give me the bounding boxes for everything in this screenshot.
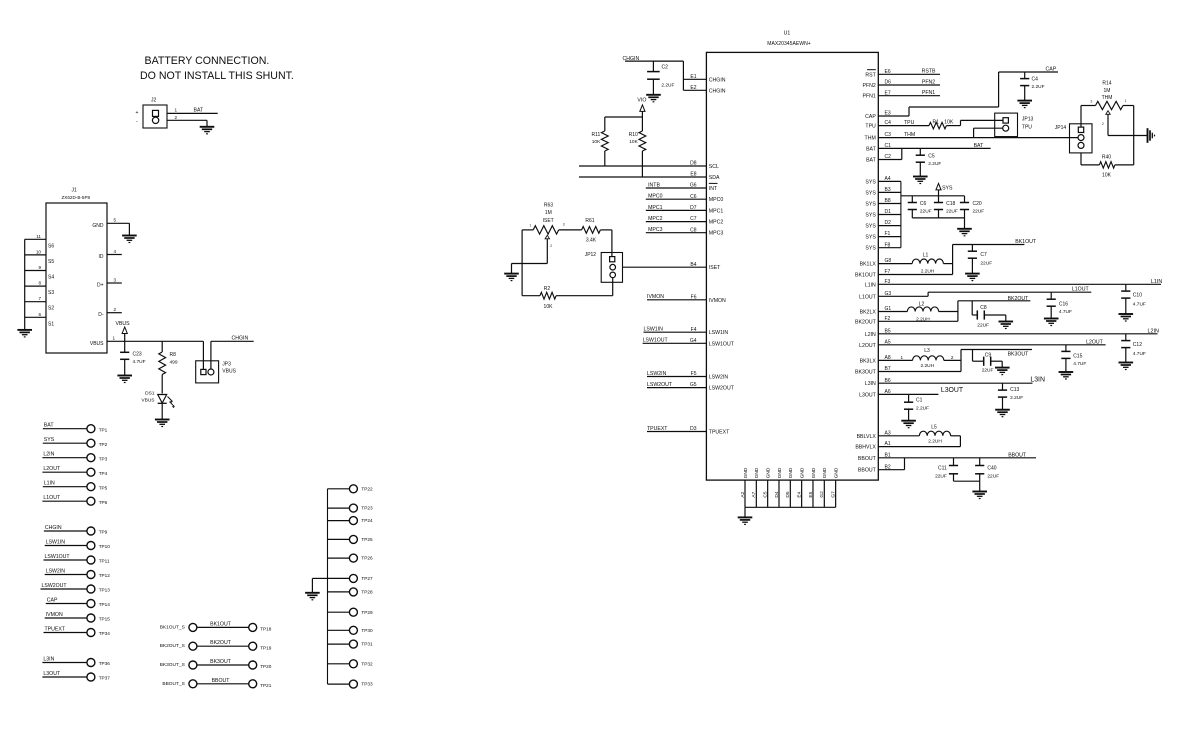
svg-text:C20: C20 xyxy=(973,201,982,207)
svg-text:4.7UF: 4.7UF xyxy=(1073,361,1086,367)
svg-text:22UF: 22UF xyxy=(946,208,958,214)
resistor R40 xyxy=(1081,153,1134,179)
capacitor C6 xyxy=(908,196,932,218)
svg-text:L2IN: L2IN xyxy=(1148,328,1159,334)
svg-text:6: 6 xyxy=(38,312,41,317)
ground C5 xyxy=(913,177,928,184)
svg-text:2: 2 xyxy=(951,355,954,360)
svg-text:A8: A8 xyxy=(885,355,891,361)
svg-text:TPU: TPU xyxy=(1022,124,1032,130)
test point TP31 xyxy=(328,640,373,648)
svg-text:E5: E5 xyxy=(808,491,814,497)
capacitor C20 xyxy=(960,196,984,218)
svg-text:GND: GND xyxy=(777,467,783,478)
svg-text:BK3OUT: BK3OUT xyxy=(210,659,232,665)
svg-text:TP6: TP6 xyxy=(99,500,108,505)
svg-text:TP11: TP11 xyxy=(99,559,110,564)
svg-text:3: 3 xyxy=(563,223,565,227)
svg-text:JP12: JP12 xyxy=(585,252,597,258)
svg-text:E8: E8 xyxy=(690,172,696,178)
svg-text:E7: E7 xyxy=(885,90,891,96)
svg-text:4.7UF: 4.7UF xyxy=(1133,302,1146,308)
svg-text:22UF: 22UF xyxy=(987,473,999,479)
svg-text:D6: D6 xyxy=(885,80,892,86)
svg-text:L1IN: L1IN xyxy=(1151,279,1162,285)
svg-text:SYS: SYS xyxy=(865,235,876,241)
svg-text:LSW1OUT: LSW1OUT xyxy=(709,341,735,347)
svg-text:LSW2IN: LSW2IN xyxy=(46,568,66,574)
test point TP5 net L1IN xyxy=(43,481,108,491)
ground J1 GND xyxy=(122,236,137,243)
svg-text:BK3OUT_S: BK3OUT_S xyxy=(160,662,185,668)
svg-text:G5: G5 xyxy=(690,382,697,388)
svg-text:TPUEXT: TPUEXT xyxy=(45,626,66,632)
inductor L1 xyxy=(912,252,952,274)
svg-text:MPC2: MPC2 xyxy=(709,220,724,226)
wire net CHGIN to U1 xyxy=(623,56,684,90)
svg-text:D+: D+ xyxy=(97,283,104,289)
test point TP36 net L3IN xyxy=(42,656,110,666)
svg-text:RST: RST xyxy=(865,72,876,78)
svg-text:A6: A6 xyxy=(885,389,891,395)
svg-text:TP37: TP37 xyxy=(99,676,111,681)
svg-text:L5: L5 xyxy=(931,424,937,430)
svg-text:9: 9 xyxy=(38,265,41,270)
power flag VBUS xyxy=(116,321,131,342)
svg-text:1M: 1M xyxy=(1104,88,1111,94)
resistor R1 xyxy=(929,120,1003,129)
svg-text:MAX20345AEWN+: MAX20345AEWN+ xyxy=(767,41,810,47)
U1 pin E8 SDA xyxy=(579,172,720,181)
wire JP12 to R2 xyxy=(612,278,614,296)
svg-text:TP34: TP34 xyxy=(99,631,111,636)
resistor R11 xyxy=(591,117,608,166)
test point TP15 net IVMON xyxy=(45,612,111,622)
svg-text:D4: D4 xyxy=(774,491,780,497)
svg-text:TP5: TP5 xyxy=(99,485,108,490)
capacitor C7 xyxy=(968,245,992,274)
U1 pin D3 TPUEXT xyxy=(647,426,730,436)
svg-text:22UF: 22UF xyxy=(935,473,947,479)
ground C1 xyxy=(901,421,916,428)
svg-text:BK3LX: BK3LX xyxy=(860,358,877,364)
svg-text:L2OUT: L2OUT xyxy=(859,343,877,349)
svg-text:TP1: TP1 xyxy=(99,427,108,432)
wire BBOUT caps rail xyxy=(954,481,980,491)
U1 pin G3 L1OUT xyxy=(859,287,1091,301)
capacitor C1 xyxy=(904,394,929,420)
U1 pin D7 MPC1 xyxy=(646,205,724,215)
wire BK1OUT net xyxy=(953,239,1037,275)
svg-text:2.2UH: 2.2UH xyxy=(928,438,942,444)
svg-text:A1: A1 xyxy=(885,441,891,447)
svg-text:TP21: TP21 xyxy=(260,683,272,688)
svg-text:F4: F4 xyxy=(691,327,697,333)
svg-text:BK1OUT_S: BK1OUT_S xyxy=(160,624,185,630)
svg-text:ISET: ISET xyxy=(709,265,721,271)
resistor R10 xyxy=(629,117,646,177)
svg-text:TP31: TP31 xyxy=(361,642,373,647)
svg-text:SDA: SDA xyxy=(709,175,720,181)
svg-text:B1: B1 xyxy=(885,452,891,458)
svg-text:B7: B7 xyxy=(885,366,891,372)
svg-text:BK1OUT: BK1OUT xyxy=(210,621,232,627)
capacitor C10 xyxy=(1121,284,1146,314)
U1 pin C2 BAT xyxy=(866,148,902,163)
svg-text:R61: R61 xyxy=(585,218,594,224)
ground U1 GND pins xyxy=(738,517,753,524)
svg-text:C6: C6 xyxy=(690,194,697,200)
svg-text:TP15: TP15 xyxy=(99,617,111,622)
svg-text:C16: C16 xyxy=(1059,302,1068,308)
svg-text:499: 499 xyxy=(170,360,178,366)
svg-text:E4: E4 xyxy=(796,491,802,497)
ground THM sideways xyxy=(1148,128,1155,143)
U1 pin A1 BBHVLX xyxy=(855,436,960,451)
jumper JP14 xyxy=(1055,124,1092,153)
svg-text:2.2UF: 2.2UF xyxy=(916,406,929,412)
capacitor C5 xyxy=(916,148,942,176)
ground C2 xyxy=(646,95,661,102)
svg-text:TP23: TP23 xyxy=(361,506,373,511)
svg-text:VBUS: VBUS xyxy=(222,369,236,375)
svg-text:B2: B2 xyxy=(885,464,891,470)
svg-text:J2: J2 xyxy=(151,97,157,103)
U1 pin G1 BK2LX xyxy=(860,306,908,315)
svg-text:G8: G8 xyxy=(885,258,892,264)
svg-text:B5: B5 xyxy=(885,328,891,334)
resistor R61 xyxy=(582,218,612,256)
U1 pin G4 LSW1OUT xyxy=(643,338,735,348)
svg-text:L1IN: L1IN xyxy=(865,282,876,288)
svg-text:1: 1 xyxy=(113,336,116,341)
svg-text:TP25: TP25 xyxy=(361,537,373,542)
wire JP13 to THM xyxy=(974,128,1003,137)
svg-text:2.2UF: 2.2UF xyxy=(1010,395,1023,401)
U1 pin F7 BK1OUT xyxy=(855,269,953,278)
test point TP18 net BK1OUT xyxy=(160,621,272,631)
svg-text:C15: C15 xyxy=(1073,354,1082,360)
test point TP22 xyxy=(328,485,373,493)
U1 pin F5 LSW2IN xyxy=(647,371,728,381)
svg-text:MPC1: MPC1 xyxy=(709,208,724,214)
svg-text:CHGIN: CHGIN xyxy=(232,336,249,342)
svg-text:R40: R40 xyxy=(1102,154,1111,160)
svg-text:TP3: TP3 xyxy=(99,456,108,461)
svg-text:G3: G3 xyxy=(885,291,892,297)
svg-text:LSW1IN: LSW1IN xyxy=(709,330,729,336)
svg-text:C1: C1 xyxy=(885,143,892,149)
svg-text:S4: S4 xyxy=(48,275,54,281)
svg-text:C4: C4 xyxy=(885,120,892,126)
svg-text:CAP: CAP xyxy=(1046,67,1057,73)
wire R63 wiper to ground xyxy=(512,264,548,274)
test point TP27 xyxy=(328,574,373,582)
svg-text:THM: THM xyxy=(865,136,876,142)
svg-text:A2: A2 xyxy=(740,491,746,497)
svg-text:L2OUT: L2OUT xyxy=(43,466,61,472)
test point TP20 net BK3OUT xyxy=(160,659,272,669)
svg-text:LSW2IN: LSW2IN xyxy=(647,371,667,377)
svg-text:TP24: TP24 xyxy=(361,518,373,523)
J1 shield pins S1-S6 xyxy=(25,234,55,330)
jumper JP12 xyxy=(585,252,623,282)
svg-text:S3: S3 xyxy=(48,290,54,296)
svg-text:C23: C23 xyxy=(133,352,142,358)
U1 pin E3 CAP xyxy=(865,67,1058,120)
svg-text:GND: GND xyxy=(743,467,749,478)
inductor L2 xyxy=(907,302,958,323)
svg-text:BBOUT: BBOUT xyxy=(858,456,877,462)
J1 pin2 D- xyxy=(98,307,122,318)
svg-text:TP20: TP20 xyxy=(260,664,272,669)
svg-text:C12: C12 xyxy=(1133,342,1142,348)
ground C7 xyxy=(965,274,980,281)
svg-text:F3: F3 xyxy=(885,279,891,285)
resistor R8 xyxy=(159,341,178,393)
svg-text:C18: C18 xyxy=(946,201,955,207)
svg-text:D-: D- xyxy=(98,312,104,318)
test point TP26 xyxy=(328,554,373,562)
U1 pin E1 CHGIN xyxy=(683,74,725,83)
test point TP2 net SYS xyxy=(43,437,108,447)
svg-text:S2: S2 xyxy=(48,306,54,312)
svg-text:MPC3: MPC3 xyxy=(648,227,663,233)
U1 pin B7 BK3OUT xyxy=(855,366,961,375)
svg-text:TP36: TP36 xyxy=(99,661,111,666)
svg-text:C10: C10 xyxy=(1133,293,1142,299)
svg-text:C5: C5 xyxy=(762,491,768,497)
test point TP13 net LSW2OUT xyxy=(41,583,111,593)
test point TP25 xyxy=(328,535,373,543)
svg-text:BAT: BAT xyxy=(44,423,55,429)
svg-text:LSW1IN: LSW1IN xyxy=(46,539,66,545)
svg-text:C11: C11 xyxy=(938,466,947,472)
svg-text:2.2UH: 2.2UH xyxy=(921,268,935,274)
svg-text:2.2UF: 2.2UF xyxy=(661,83,674,89)
capacitor C12 xyxy=(1121,334,1146,363)
U1 pin B4 ISET xyxy=(623,262,722,271)
svg-text:SYS: SYS xyxy=(865,213,876,219)
svg-text:SYS: SYS xyxy=(865,179,876,185)
U1 pin A6 L3OUT xyxy=(859,387,964,399)
svg-text:D1: D1 xyxy=(885,209,892,215)
svg-text:C2: C2 xyxy=(885,154,892,160)
svg-text:CAP: CAP xyxy=(47,597,58,603)
svg-text:F8: F8 xyxy=(885,242,891,248)
ground C16 xyxy=(1044,319,1059,326)
svg-text:BK2OUT: BK2OUT xyxy=(855,319,877,325)
svg-text:CHGIN: CHGIN xyxy=(709,77,726,83)
svg-text:GND: GND xyxy=(754,467,760,478)
U1 pin F6 IVMON xyxy=(647,294,726,304)
inductor L5 xyxy=(919,424,960,444)
svg-text:E1: E1 xyxy=(690,74,696,80)
svg-text:C4: C4 xyxy=(1032,77,1039,83)
potentiometer R14 xyxy=(1081,81,1134,136)
wire R14 wiper to ground xyxy=(1108,135,1147,137)
svg-text:1: 1 xyxy=(530,223,532,227)
svg-text:10K: 10K xyxy=(544,304,554,310)
svg-text:D2: D2 xyxy=(885,220,892,226)
svg-text:BK2OUT: BK2OUT xyxy=(210,640,232,646)
svg-text:4: 4 xyxy=(114,249,117,254)
test point TP33 xyxy=(328,680,373,688)
svg-text:L1IN: L1IN xyxy=(44,481,55,487)
svg-text:C7: C7 xyxy=(690,216,697,222)
svg-text:1: 1 xyxy=(175,108,178,113)
wire J2 pin1 BAT xyxy=(167,107,218,113)
svg-text:TP9: TP9 xyxy=(99,530,108,535)
svg-text:J1: J1 xyxy=(72,188,78,194)
svg-text:D5: D5 xyxy=(785,491,791,497)
svg-text:BBHVLX: BBHVLX xyxy=(855,445,876,451)
svg-text:F1: F1 xyxy=(885,231,891,237)
U1 pin A8 BK3LX xyxy=(860,355,913,364)
svg-text:C8: C8 xyxy=(690,227,697,233)
svg-text:C6: C6 xyxy=(920,201,927,207)
power flag SYS xyxy=(936,183,953,195)
svg-text:4.7UF: 4.7UF xyxy=(133,359,146,365)
op-amp U1 MAX20345AEWN+ body xyxy=(706,30,878,480)
ground J2 xyxy=(200,127,215,134)
U1 pin A5 L2OUT xyxy=(859,339,1106,349)
svg-text:BBLVLX: BBLVLX xyxy=(857,434,877,440)
svg-text:GND: GND xyxy=(766,467,772,478)
potentiometer R63 xyxy=(522,202,582,263)
svg-text:E3: E3 xyxy=(885,111,891,117)
svg-text:TP22: TP22 xyxy=(361,486,373,491)
svg-text:TP28: TP28 xyxy=(361,590,373,595)
svg-text:BK2OUT: BK2OUT xyxy=(1008,296,1030,302)
svg-text:ZX62D-B-5P8: ZX62D-B-5P8 xyxy=(62,195,91,200)
svg-text:2.2UF: 2.2UF xyxy=(928,161,941,167)
svg-text:8: 8 xyxy=(38,281,41,286)
svg-text:L1OUT: L1OUT xyxy=(43,495,61,501)
svg-text:PFN1: PFN1 xyxy=(863,94,876,100)
J1 pin4 ID xyxy=(99,249,122,260)
svg-text:A5: A5 xyxy=(885,339,891,345)
svg-text:22UF: 22UF xyxy=(980,261,992,267)
test point TP32 xyxy=(328,660,373,668)
svg-text:BBOUT: BBOUT xyxy=(858,468,877,474)
svg-text:MPC1: MPC1 xyxy=(648,205,663,211)
wire CHGIN at J1 xyxy=(211,336,254,342)
svg-text:L3: L3 xyxy=(924,348,930,354)
resistor R2 xyxy=(522,286,613,310)
test point TP1 net BAT xyxy=(43,423,108,433)
svg-text:F2: F2 xyxy=(885,316,891,322)
svg-text:BK3OUT: BK3OUT xyxy=(855,370,877,376)
svg-text:CHGIN: CHGIN xyxy=(709,88,726,94)
svg-text:4.7UF: 4.7UF xyxy=(1133,351,1146,357)
capacitor C11 xyxy=(935,458,958,481)
svg-text:B4: B4 xyxy=(690,262,696,268)
svg-text:MPC0: MPC0 xyxy=(648,194,663,200)
U1 pin B5 L2IN xyxy=(865,328,1159,337)
svg-text:22UF: 22UF xyxy=(920,208,932,214)
svg-text:C8: C8 xyxy=(980,305,987,311)
svg-text:D7: D7 xyxy=(690,205,697,211)
capacitor C4 xyxy=(1020,72,1045,101)
U1 pin C8 MPC3 xyxy=(646,227,724,237)
capacitor C18 xyxy=(934,196,958,218)
ground C23 xyxy=(117,376,132,383)
U1 pin F2 BK2OUT xyxy=(855,316,958,325)
U1 pin G8 BK1LX xyxy=(860,258,913,267)
U1 pin A3 BBLVLX xyxy=(857,430,920,439)
svg-text:INTB: INTB xyxy=(648,182,660,188)
svg-text:GND: GND xyxy=(800,467,806,478)
test point TP24 xyxy=(328,517,373,525)
svg-text:MPC3: MPC3 xyxy=(709,231,724,237)
test point TP12 net LSW2IN xyxy=(45,568,111,578)
svg-text:C2: C2 xyxy=(662,64,669,70)
svg-text:F7: F7 xyxy=(885,269,891,275)
capacitor C23 xyxy=(120,341,146,375)
svg-text:CHGIN: CHGIN xyxy=(45,525,62,531)
svg-text:IVMON: IVMON xyxy=(46,612,63,618)
capacitor C16 xyxy=(1047,292,1072,318)
svg-text:BK2OUT_S: BK2OUT_S xyxy=(160,643,185,649)
test point TP9 net CHGIN xyxy=(44,525,108,535)
svg-text:BAT: BAT xyxy=(866,146,877,152)
svg-text:G2: G2 xyxy=(819,491,825,498)
svg-text:VIO: VIO xyxy=(637,98,646,104)
test point TP29 xyxy=(328,608,373,616)
ground C9 xyxy=(995,368,1010,375)
svg-text:LSW2OUT: LSW2OUT xyxy=(709,386,735,392)
svg-text:B8: B8 xyxy=(885,198,891,204)
test point TP28 xyxy=(328,588,373,596)
svg-text:C7: C7 xyxy=(980,252,987,258)
svg-text:BK1LX: BK1LX xyxy=(860,262,877,268)
svg-text:D3: D3 xyxy=(690,426,697,432)
ground SYS caps xyxy=(957,229,972,236)
svg-text:TP4: TP4 xyxy=(99,471,108,476)
svg-text:L3OUT: L3OUT xyxy=(43,671,61,677)
U1 pin G5 LSW2OUT xyxy=(647,382,735,392)
svg-text:L1OUT: L1OUT xyxy=(859,294,877,300)
svg-text:L3IN: L3IN xyxy=(43,656,54,662)
svg-text:BBOUT: BBOUT xyxy=(212,678,231,684)
test point TP11 net LSW1OUT xyxy=(44,554,110,564)
svg-text:BK2LX: BK2LX xyxy=(860,310,877,316)
test point TP14 net CAP xyxy=(46,597,110,607)
svg-text:RSTB: RSTB xyxy=(922,69,936,75)
U1 pin E6 RST xyxy=(865,69,940,79)
svg-text:3.4K: 3.4K xyxy=(586,238,597,244)
svg-text:JP3: JP3 xyxy=(222,361,231,367)
svg-text:L2IN: L2IN xyxy=(865,332,876,338)
svg-text:TP12: TP12 xyxy=(99,573,111,578)
svg-text:R14: R14 xyxy=(1102,81,1111,87)
svg-text:1: 1 xyxy=(1125,99,1127,103)
wire R14 right leg xyxy=(1133,106,1135,165)
wire SYS rail xyxy=(901,195,965,197)
svg-text:IVMON: IVMON xyxy=(709,298,726,304)
svg-text:10: 10 xyxy=(36,249,42,254)
connector J1 xyxy=(46,188,107,354)
U1 pin F4 LSW1IN xyxy=(644,327,729,337)
svg-text:SYS: SYS xyxy=(865,224,876,230)
svg-text:GND: GND xyxy=(788,467,794,478)
test point TP3 net L2IN xyxy=(42,452,107,462)
capacitor C9 xyxy=(973,350,1003,374)
svg-text:L2: L2 xyxy=(919,302,925,308)
svg-text:D8: D8 xyxy=(690,161,697,167)
U1 pin B1 BBOUT xyxy=(858,452,1036,462)
